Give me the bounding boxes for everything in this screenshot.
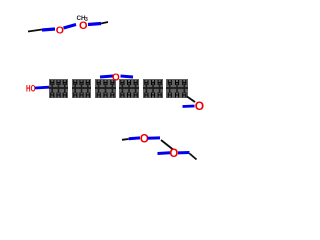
svg-text:H: H — [62, 80, 67, 87]
wire: lead-in bond — [122, 138, 129, 141]
svg-text:H: H — [151, 80, 156, 87]
svg-text:H: H — [56, 80, 61, 87]
CH2 triple block 3 — [95, 79, 116, 98]
O-N blue bond after HO — [35, 86, 49, 90]
mid-chain N-O-N group: blue bar left — [100, 76, 113, 77]
svg-text:H: H — [50, 80, 55, 87]
wire: chain end descending bond — [187, 97, 195, 103]
motif2 blue bar right — [178, 151, 190, 154]
svg-text:O: O — [169, 148, 178, 160]
svg-text:H: H — [103, 93, 108, 100]
wire: link bond between motifs — [161, 140, 173, 150]
chain C-C backbone line — [49, 87, 68, 89]
svg-text:H: H — [103, 80, 108, 87]
svg-text:H: H — [133, 80, 138, 87]
wire: top left C bond — [28, 30, 42, 32]
mid-chain blue bar right — [121, 76, 134, 77]
motif1 blue bar right — [148, 136, 161, 139]
svg-text:H: H — [73, 93, 78, 100]
CH2 triple block 1 — [49, 79, 68, 98]
top N=N blue double bar left — [42, 29, 55, 30]
svg-text:H: H — [120, 93, 125, 100]
svg-text:H: H — [62, 93, 67, 100]
CH2 triple block 4 — [119, 79, 139, 98]
svg-text:O: O — [112, 72, 120, 83]
bottom right fragment: two N-O-N motifs — [122, 133, 197, 160]
svg-text:H: H — [73, 80, 78, 87]
svg-text:H: H — [96, 80, 101, 87]
svg-text:H: H — [79, 80, 84, 87]
wire: top right C bond — [101, 22, 108, 24]
svg-text:O: O — [56, 24, 64, 36]
svg-text:O: O — [195, 99, 204, 113]
svg-text:H: H — [144, 93, 149, 100]
top N=N blue bar right — [88, 24, 101, 25]
middle long chain molecule — [26, 72, 204, 113]
svg-text:H: H — [85, 80, 90, 87]
svg-text:H: H — [167, 80, 172, 87]
chain end N-O blue bar — [183, 105, 195, 108]
top O1-N blue rising bond — [64, 25, 77, 29]
motif1 blue bar left — [129, 136, 140, 140]
top fragment: C-N=N-O-N=N(CH3)-O chain — [28, 15, 108, 37]
wire: tail bond — [190, 154, 197, 160]
svg-text:H: H — [133, 93, 138, 100]
svg-text:H: H — [157, 93, 162, 100]
svg-text:H: H — [151, 93, 156, 100]
svg-text:HO: HO — [26, 83, 36, 93]
svg-text:3: 3 — [85, 17, 88, 23]
svg-text:H: H — [127, 93, 132, 100]
svg-text:H: H — [127, 80, 132, 87]
svg-text:H: H — [96, 93, 101, 100]
svg-text:H: H — [79, 93, 84, 100]
svg-text:H: H — [56, 93, 61, 100]
svg-text:H: H — [144, 80, 149, 87]
CH2 triple block 5 — [143, 79, 163, 98]
svg-text:H: H — [167, 93, 172, 100]
svg-text:H: H — [85, 93, 90, 100]
CH2 triple block 2 — [72, 79, 91, 98]
svg-text:H: H — [157, 80, 162, 87]
motif2 blue bar left — [158, 151, 171, 155]
svg-text:H: H — [50, 93, 55, 100]
svg-text:H: H — [175, 80, 180, 87]
CH2 triple block 6 — [166, 79, 188, 98]
svg-text:H: H — [110, 93, 115, 100]
svg-text:H: H — [120, 80, 125, 87]
svg-text:H: H — [182, 93, 187, 100]
svg-text:H: H — [182, 80, 187, 87]
svg-text:H: H — [175, 93, 180, 100]
